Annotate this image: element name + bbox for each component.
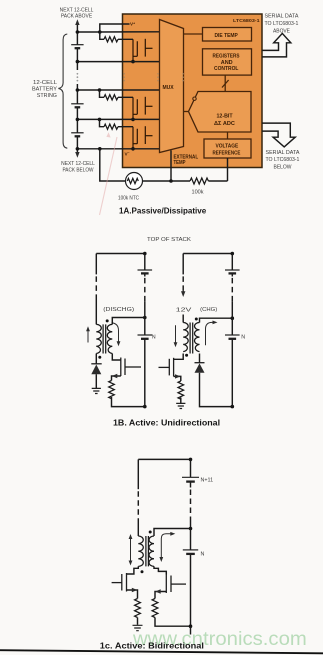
rail dashed [190,490,192,523]
block ellipsis [123,73,125,75]
battery string vertical wire [76,32,78,149]
wire tap row1 [77,24,129,32]
mux ellipsis left [157,73,159,75]
resistor S low [100,119,134,126]
12V feed line [182,254,184,275]
up-down current arrow [130,538,132,563]
left circuit right rail [144,254,146,277]
T1 right winding [107,324,112,353]
wire R1 to bottom [112,397,145,407]
svg-text:12-CELL: 12-CELL [33,80,57,86]
resistor S mid [100,90,134,97]
svg-text:1A.Passive/Dissipative: 1A.Passive/Dissipative [119,206,207,215]
string ellipsis [77,73,79,75]
wire V- row [77,148,159,150]
right rail with battery N+11 [190,459,192,487]
rail dashed right [231,278,233,302]
bent double arrow [161,534,172,559]
bottom rule [0,650,323,653]
wire R2 to ground [180,398,182,404]
wire MUX to DIE TEMP [184,33,203,35]
wire external temp input [170,150,172,181]
T1 polarity dots [106,319,109,322]
svg-text:LTC6803-1: LTC6803-1 [233,18,260,24]
battery N left [144,318,146,407]
wire R4 to rail [155,618,191,627]
transistor Q2 [159,358,174,377]
T1 secondary top lead [112,318,145,325]
left rail upper [95,254,97,275]
resistor R1 [109,381,115,399]
T3 polarity dot top [149,531,152,534]
VOLTAGE REFERENCE box [204,139,251,158]
T2 core [190,323,193,354]
wire MUX to ADC [184,111,189,113]
bus wire registers to ADC with slash [224,75,226,91]
transistor M1 (discharge FET) [133,39,153,62]
svg-text:PACK ABOVE: PACK ABOVE [61,13,93,19]
transformer T3 left winding [138,536,143,566]
battery N [190,529,192,627]
REGISTERS AND CONTROL box [203,49,252,75]
Q3 source lead with arrow [127,590,138,599]
battery N right [231,318,233,406]
transistor M2 [133,97,153,120]
current arrow curved [112,323,119,343]
svg-text:BELOW: BELOW [274,164,292,170]
left rail lower [95,300,97,325]
svg-text:REFERENCE: REFERENCE [213,150,241,157]
T3 polarity dot bottom [141,570,144,573]
svg-text:(CHG): (CHG) [200,307,217,313]
resistor 100k [171,180,228,182]
svg-text:CONTROL: CONTROL [214,66,238,72]
transformer T2 left winding [183,323,188,352]
arrow to pack below [76,149,78,154]
resistor S12 [100,32,133,39]
svg-text:TOP OF STACK: TOP OF STACK [147,237,191,243]
svg-text:SERIAL DATA: SERIAL DATA [266,150,300,156]
svg-text:TEMP: TEMP [174,160,186,165]
brace 12-cell battery string [58,34,67,148]
battery cell top [71,44,83,46]
svg-text:MUX: MUX [163,85,175,91]
wire R3 to ground [137,618,139,625]
current arrow up [87,329,89,343]
wire 12V to T2 [182,315,184,323]
mux ellipsis right [182,73,184,75]
svg-text:STRING: STRING [37,93,57,99]
transformer T1 left winding [96,324,101,353]
svg-text:SERIAL DATA: SERIAL DATA [265,14,299,20]
wire to T3 secondary [154,529,191,537]
svg-text:100k NTC: 100k NTC [118,195,139,201]
rail dashed [144,278,146,302]
svg-text:PACK BELOW: PACK BELOW [63,167,94,173]
wire C12 to MUX [100,31,160,33]
rail stub below [190,626,192,634]
resistor R3 [135,599,141,618]
thermistor 100k NTC [126,173,143,190]
svg-text:ABOVE: ABOVE [273,28,290,34]
T3 right winding [149,536,154,566]
MUX [160,20,184,153]
svg-text:(DISCHG): (DISCHG) [103,307,134,313]
transistor Q1 [121,358,141,377]
svg-text:VOLTAGE: VOLTAGE [216,143,239,149]
left rail dashed [95,276,97,299]
ground right circuit [176,403,185,408]
battery cell mid [71,103,83,105]
svg-text:1B. Active: Unidirectional: 1B. Active: Unidirectional [113,418,220,428]
ground left circuit [92,388,101,393]
wire C11 row [77,61,159,63]
svg-text:N: N [201,552,205,558]
svg-text:12-BIT: 12-BIT [217,113,234,119]
wire 100k to VREF [227,158,229,181]
resistor R2 [178,381,184,399]
svg-text:N: N [241,334,245,340]
wire NTC to node [143,180,172,182]
Q2 drain lead [174,354,184,360]
wire row4 [77,118,159,120]
svg-text:100k: 100k [192,189,204,195]
svg-text:TO LTC6803-1: TO LTC6803-1 [265,21,299,27]
T1 secondary bottom lead to Q1 drain [112,354,121,361]
T1 core [103,324,106,353]
Q1 source lead with arrow [112,376,121,381]
battery top right [225,269,240,271]
node tap1 [76,30,80,34]
svg-text:TO LTC6803-1: TO LTC6803-1 [266,157,300,163]
transistor M3 [133,126,153,149]
serial wires down [262,123,295,147]
svg-text:1c. Active: Bidirectional: 1c. Active: Bidirectional [100,641,204,651]
svg-text:N+11: N+11 [201,478,214,484]
DIE TEMP box [203,28,252,42]
svg-text:N: N [152,334,156,340]
serial wires up [262,33,291,57]
left vertical [137,459,139,489]
transistor Q4 [166,575,186,594]
T2 secondary top lead [200,318,233,322]
svg-text:12V: 12V [176,306,192,313]
wire ADC to VREF [227,132,229,139]
T2 polarity dots [195,318,198,321]
battery cell bottom [71,132,83,134]
svg-text:DIE TEMP: DIE TEMP [215,33,239,39]
right circuit top wire [183,253,232,255]
T3 core [146,536,149,566]
T3 left winding bottom lead to Q3 [127,566,139,574]
left circuit top wire [96,253,145,255]
transistor Q3 [112,573,127,592]
wire tap row3 [77,89,159,91]
diode D2 [199,354,201,363]
svg-text:ΔΣ ADC: ΔΣ ADC [214,121,235,127]
IC block LTC6803-1 [123,14,263,168]
current arrow down [175,325,177,344]
T2 right winding [195,323,200,352]
ground 1C [133,625,143,630]
T3 right winding bottom lead to Q4 [154,566,166,574]
Q4 source lead with arrow [155,592,166,599]
pink watermark artifact [100,137,118,215]
battery top left [138,269,153,271]
arrow to pack above [76,23,78,32]
right circuit rail [231,254,233,277]
diode D1 [95,354,97,364]
resistor R4 [152,599,158,618]
svg-text:NEXT 12-CELL: NEXT 12-CELL [61,161,95,167]
svg-text:BATTERY: BATTERY [32,87,57,93]
ADC block [189,92,252,133]
current arrow curved right [206,322,215,345]
svg-text:REGISTERS: REGISTERS [213,53,241,59]
top wire [138,458,190,460]
wire NTC branch [100,149,126,181]
Q2 source lead with arrow [174,376,181,381]
